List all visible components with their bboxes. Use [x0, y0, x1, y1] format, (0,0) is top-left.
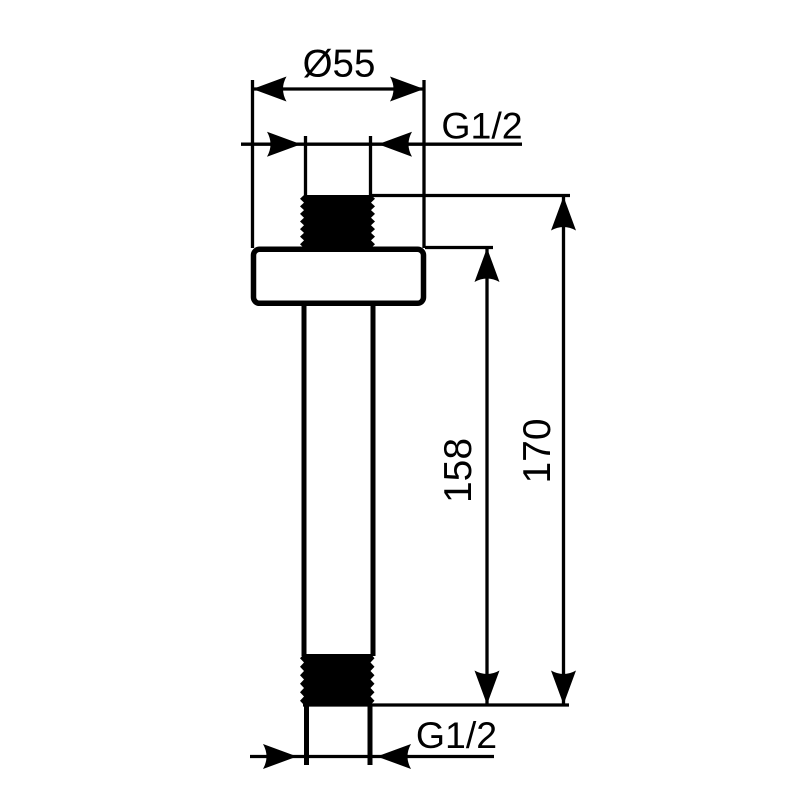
svg-text:Ø55: Ø55	[303, 43, 376, 86]
svg-text:G1/2: G1/2	[416, 714, 497, 756]
svg-text:158: 158	[437, 438, 480, 503]
svg-text:G1/2: G1/2	[441, 105, 522, 147]
svg-text:170: 170	[516, 418, 559, 483]
